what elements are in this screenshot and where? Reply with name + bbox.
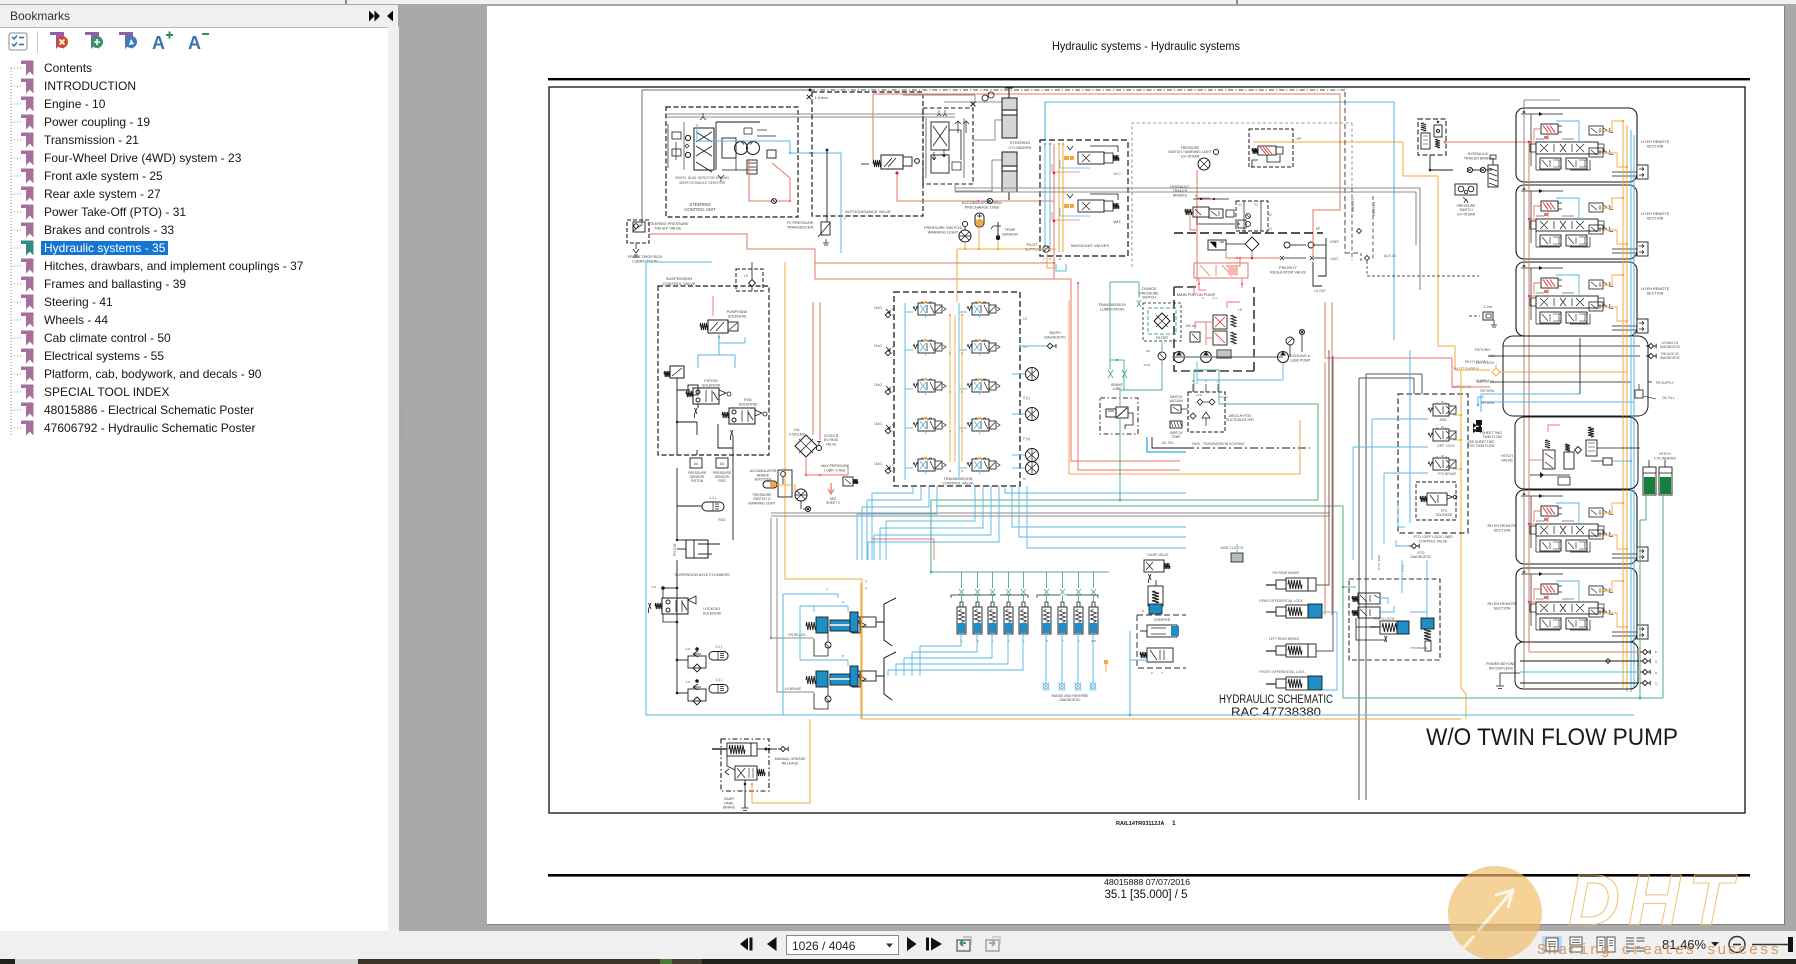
wire orange brake P xyxy=(862,583,867,719)
svg-text:2 bar: 2 bar xyxy=(1196,393,1202,397)
pto clutch actuator xyxy=(1356,618,1409,642)
wire trunk cyan right col xyxy=(1631,130,1634,692)
label RH EH remote 4 xyxy=(1487,524,1517,533)
gray bus double xyxy=(771,513,1330,516)
svg-text:RETURN: RETURN xyxy=(1475,348,1490,352)
svg-text:ACCUMULATOR 750cc: ACCUMULATOR 750cc xyxy=(962,201,1002,205)
svg-text:ROD: ROD xyxy=(744,398,752,402)
tcv valve right row 3 xyxy=(967,378,1000,395)
wire red cooler xyxy=(805,302,848,476)
max pressure lubr label xyxy=(821,464,849,472)
midmount trunk lines xyxy=(1044,143,1121,252)
wire red supply p1 xyxy=(1325,302,1490,615)
tcv port labels xyxy=(1023,317,1030,481)
svg-text:RH BRAKE: RH BRAKE xyxy=(788,633,806,637)
svg-text:LSAT: LSAT xyxy=(1330,257,1338,261)
tcv valve right row 4 xyxy=(967,417,1000,434)
svg-text:SECTION: SECTION xyxy=(1647,145,1664,149)
svg-text:DIAGNOSTIC: DIAGNOSTIC xyxy=(1410,555,1432,559)
decrease text size icon xyxy=(188,33,209,53)
svg-text:DHT: DHT xyxy=(1568,861,1740,941)
svg-text:BRAKE: BRAKE xyxy=(723,806,736,810)
svg-text:P: P xyxy=(865,580,868,584)
tcv valve right row 2 xyxy=(967,339,1000,356)
cyan staircase below tcv xyxy=(857,486,999,560)
svg-text:T: T xyxy=(844,217,847,221)
main pump symbols xyxy=(1172,350,1283,363)
suspension axle cylinder xyxy=(673,539,730,577)
tcv valve left row 2 xyxy=(913,339,946,356)
remote section block 2 LH xyxy=(1516,185,1648,259)
svg-text:SOLENOID: SOLENOID xyxy=(703,611,722,615)
wire gray brake feeds xyxy=(770,518,814,692)
svg-text:1.4 mm: 1.4 mm xyxy=(814,95,828,100)
next view button (disabled) xyxy=(986,937,1000,951)
sahr spring actuator xyxy=(712,743,769,756)
page dropdown arrow xyxy=(886,944,893,948)
trailer brake spring xyxy=(1488,155,1498,187)
svg-text:TRAILER BRAKE: TRAILER BRAKE xyxy=(1464,156,1493,160)
watermark DHT outline text xyxy=(1568,861,1740,941)
svg-text:A: A xyxy=(892,463,894,467)
wire hitch green xyxy=(1620,448,1663,698)
svg-text:48015888 07/07/2016: 48015888 07/07/2016 xyxy=(1104,878,1191,887)
svg-text:DIAGNOSTIC: DIAGNOSTIC xyxy=(1660,356,1681,360)
shift cylinder M xyxy=(1042,572,1051,643)
check valve red line xyxy=(977,198,993,203)
svg-text:a: a xyxy=(1655,671,1657,675)
label LH EH remote 2 xyxy=(1641,212,1670,221)
hitch cylinder right xyxy=(1659,460,1672,495)
svg-text:DIAG: DIAG xyxy=(874,344,882,348)
svg-text:LS: LS xyxy=(744,274,748,278)
pressure switch 10 bar xyxy=(1455,184,1477,216)
creeper box xyxy=(1104,615,1186,675)
svg-text:SENSOR: SENSOR xyxy=(1002,233,1018,237)
trailer brake valve box xyxy=(1418,119,1446,155)
svg-text:B: B xyxy=(1195,194,1197,198)
svg-text:T: T xyxy=(826,588,828,592)
svg-text:PUMP/TANK: PUMP/TANK xyxy=(727,310,748,314)
svg-text:PISTON: PISTON xyxy=(704,379,718,383)
park brake valve box xyxy=(1100,398,1138,434)
svg-text:LS: LS xyxy=(1238,308,1242,312)
svg-text:S: S xyxy=(1655,660,1657,664)
wire cyan cylinder drops right xyxy=(1046,634,1093,683)
wire blue pump suction xyxy=(1197,361,1283,384)
wire red right of tcv xyxy=(1071,279,1180,470)
wire orange pto trunk xyxy=(1453,370,1462,507)
svg-text:RELEASE: RELEASE xyxy=(782,761,799,765)
svg-text:Y2: Y2 xyxy=(1268,227,1272,231)
wire trunk orange right col xyxy=(1623,120,1627,692)
range reverse diagnostic drains xyxy=(1043,683,1097,703)
cyan staircase to left xyxy=(860,646,905,664)
midmount valve section 2 xyxy=(1052,146,1121,176)
svg-text:SECTION: SECTION xyxy=(1647,292,1664,296)
steering cylinder top xyxy=(1002,88,1017,138)
svg-text:N: N xyxy=(1142,609,1144,613)
tcv valve right row 5 xyxy=(967,457,1000,474)
svg-text:TRANSMISSION: TRANSMISSION xyxy=(944,477,973,481)
charge pressure switch xyxy=(1110,282,1159,307)
see sheet 2 arrow xyxy=(826,483,840,505)
continuous layout button xyxy=(1570,937,1582,952)
wire orange pilot supply xyxy=(1438,346,1490,370)
svg-text:RH REAR BRAKE: RH REAR BRAKE xyxy=(1273,571,1301,575)
lockout solenoid valve xyxy=(649,560,722,692)
svg-text:SUCTION FILTER: SUCTION FILTER xyxy=(1226,418,1254,422)
svg-text:2-8: 2-8 xyxy=(686,647,691,651)
single page layout button (active) xyxy=(1542,936,1562,953)
svg-text:EP: EP xyxy=(1316,227,1321,231)
power beyond ports xyxy=(1520,649,1658,686)
svg-text:PISTON: PISTON xyxy=(691,479,704,483)
tcv valve left row 4 xyxy=(913,417,946,434)
rh rear brake xyxy=(1266,571,1316,591)
wire LS dash-dot top xyxy=(809,89,1346,92)
wire dark gray buses right xyxy=(1359,374,1422,800)
svg-text:B: B xyxy=(892,423,894,427)
svg-text:LUBE: LUBE xyxy=(1113,387,1123,391)
switch vacuum xyxy=(1169,395,1188,413)
wire trailer brake black xyxy=(1429,155,1492,173)
accumulator brake booster xyxy=(750,469,792,497)
svg-text:REGULATOR VALVE: REGULATOR VALVE xyxy=(1270,271,1306,275)
pink line bottom left xyxy=(872,539,934,560)
svg-text:35.1 [35.000] / 5: 35.1 [35.000] / 5 xyxy=(1104,889,1187,901)
svg-text:B: B xyxy=(842,600,844,604)
svg-text:OIL FILL: OIL FILL xyxy=(1162,441,1175,445)
pressure switch warning light left xyxy=(1168,146,1218,170)
wire steering red return xyxy=(749,160,791,202)
svg-text:DIAGNOSTIC: DIAGNOSTIC xyxy=(1044,335,1066,339)
svg-text:PILOT: PILOT xyxy=(1027,243,1039,247)
drain power beyond xyxy=(1496,673,1520,689)
add bookmark icon xyxy=(85,32,103,49)
svg-text:RETURN: RETURN xyxy=(1480,401,1494,405)
dashed line vertical right xyxy=(1345,92,1361,253)
accumulator 2.0L with check xyxy=(676,645,728,672)
left rear brake xyxy=(1266,637,1316,657)
svg-text:RH EH REMOTE: RH EH REMOTE xyxy=(1487,602,1517,606)
svg-text:0-8: 0-8 xyxy=(652,585,657,589)
two page continuous button xyxy=(1626,938,1645,951)
svg-text:SHEET 2: SHEET 2 xyxy=(826,501,840,505)
svg-text:DIAG: DIAG xyxy=(874,383,882,387)
watermark logo circle xyxy=(1448,866,1542,960)
cooling lube pump xyxy=(1278,329,1311,362)
svg-text:L1 L: L1 L xyxy=(1212,296,1218,300)
svg-text:CONTROL VALVE: CONTROL VALVE xyxy=(1419,539,1448,543)
zoom dropdown arrow xyxy=(1711,942,1719,947)
svg-text:B: B xyxy=(842,654,844,658)
label LH EH remote 3 xyxy=(1641,287,1670,296)
steering control unit gerotor xyxy=(667,113,955,185)
wire red remote trunk xyxy=(1528,142,1530,652)
lubr valve xyxy=(843,477,858,486)
pressure switch warning light xyxy=(924,221,971,242)
svg-text:CONTROL UNIT: CONTROL UNIT xyxy=(684,207,716,212)
hitch cylinder left xyxy=(1643,460,1656,495)
rh brake master cylinder xyxy=(788,617,866,637)
wire steering supply gray xyxy=(642,90,810,226)
tcv valve left row 1 xyxy=(913,301,946,318)
svg-text:P: P xyxy=(1151,671,1153,675)
range relief valve xyxy=(1142,580,1163,614)
shift cylinder A xyxy=(957,572,966,643)
temp sensor xyxy=(991,222,1018,240)
svg-text:10+-05 BAR: 10+-05 BAR xyxy=(1181,154,1200,158)
filter bypass xyxy=(1144,342,1166,369)
svg-text:DIAG: DIAG xyxy=(874,462,882,466)
wire cyan pto feeds xyxy=(1353,350,1428,560)
shift bracket lines xyxy=(951,595,1098,598)
svg-text:COOLING &: COOLING & xyxy=(1290,354,1311,358)
increase text size icon xyxy=(152,32,173,54)
wire brake actuator feeds xyxy=(1316,350,1337,690)
svg-text:MANUAL GREASE: MANUAL GREASE xyxy=(775,757,806,761)
svg-text:SOLENOID: SOLENOID xyxy=(702,383,721,387)
svg-text:LUBRICATION: LUBRICATION xyxy=(1100,307,1124,311)
wire red autoguidance xyxy=(873,94,1340,279)
fx pressure transducer xyxy=(787,221,830,245)
switch temp xyxy=(1170,421,1183,439)
label hydraulic trailer brake xyxy=(1464,152,1493,160)
ls check small box xyxy=(736,262,763,291)
svg-text:P: P xyxy=(1202,296,1204,300)
priority regulator valve area xyxy=(1174,201,1323,275)
see sheet twin marker xyxy=(1468,423,1496,448)
svg-text:CREEPER: CREEPER xyxy=(1154,618,1171,622)
svg-text:DIAG: DIAG xyxy=(874,422,882,426)
wire gray LS right xyxy=(955,188,1420,290)
transmission control valve box xyxy=(894,292,1020,486)
svg-text:A: A xyxy=(188,33,201,53)
EP pilot valve box xyxy=(1249,129,1293,167)
autoguidance solenoid valve xyxy=(861,155,919,175)
svg-text:CONTROL VALVE: CONTROL VALVE xyxy=(663,281,696,286)
50kph diagnostic xyxy=(1019,331,1067,349)
wire red mid bus xyxy=(815,263,1052,279)
options checklist icon xyxy=(9,33,27,50)
piston solenoid valve xyxy=(686,379,731,404)
svg-text:RH EH REMOTE: RH EH REMOTE xyxy=(1487,524,1517,528)
4wd clutch xyxy=(1221,544,1244,562)
svg-text:DIAGNOSTIC: DIAGNOSTIC xyxy=(1059,698,1081,702)
svg-text:4WD: 4WD xyxy=(1439,418,1447,422)
wire green suction xyxy=(1194,370,1219,404)
svg-text:EXT FLUSH: EXT FLUSH xyxy=(1476,361,1495,365)
svg-text:CYLINDERS: CYLINDERS xyxy=(1009,145,1032,150)
wire cyan pto drop xyxy=(1402,560,1427,612)
cut mark 1.4 mm xyxy=(807,95,829,100)
brake pedal lh xyxy=(850,652,896,700)
svg-text:MAIN LS: MAIN LS xyxy=(1351,198,1355,212)
check valve steering red xyxy=(772,199,777,204)
diag fittings left xyxy=(874,306,895,474)
wire cyan big left rect xyxy=(646,262,1520,715)
pto brake solenoid valve xyxy=(1428,456,1456,476)
svg-text:40KPH IS SINGLE GEROTOR: 40KPH IS SINGLE GEROTOR xyxy=(679,181,726,185)
shift cylinder P xyxy=(1058,572,1067,643)
svg-text:C-bus: C-bus xyxy=(1484,305,1493,309)
wire orange mid left xyxy=(785,262,868,719)
wire cyan right trunk xyxy=(1393,176,1395,340)
svg-text:PRESSURE SWITCH/: PRESSURE SWITCH/ xyxy=(924,226,963,230)
svg-text:DIFF. LOCK: DIFF. LOCK xyxy=(1437,444,1455,448)
svg-text:SOLENOID: SOLENOID xyxy=(1436,513,1453,517)
trailer brake valve cluster xyxy=(1185,194,1246,228)
svg-text:FRONT DROP-BOX: FRONT DROP-BOX xyxy=(628,255,663,259)
closed port X piston xyxy=(695,408,698,418)
valve check top mid xyxy=(971,92,994,106)
svg-text:DA: DA xyxy=(694,462,699,466)
steering cylinder bottom xyxy=(1002,152,1017,200)
shift cylinder B xyxy=(973,572,982,643)
pto clutch valves xyxy=(1352,593,1394,618)
sahr release valve xyxy=(725,756,765,791)
svg-text:TEMP: TEMP xyxy=(1172,435,1181,439)
svg-text:BRAKES: BRAKES xyxy=(1173,193,1187,197)
hitch valve block xyxy=(1501,417,1638,489)
svg-text:TRANSMISSION: TRANSMISSION xyxy=(1098,303,1126,307)
delete bookmark icon xyxy=(50,32,68,49)
brake pedal rh xyxy=(850,598,896,646)
label steering cylinders xyxy=(1009,140,1032,150)
svg-text:0.5 bar: 0.5 bar xyxy=(1219,395,1228,399)
two page layout button xyxy=(1597,937,1615,952)
pressure sensor piston xyxy=(688,458,707,483)
svg-text:HYDRAULIC: HYDRAULIC xyxy=(1468,152,1489,156)
svg-text:SECTION: SECTION xyxy=(1494,607,1511,611)
argo-hytos suction filter box xyxy=(1188,392,1254,432)
svg-text:T: T xyxy=(1161,671,1163,675)
wire green pto left xyxy=(1342,586,1356,589)
previous page button xyxy=(767,937,777,951)
wire cyan brake loop xyxy=(783,588,848,715)
aux ls dashed xyxy=(1357,229,1480,277)
svg-text:PTO BRAKE: PTO BRAKE xyxy=(1438,472,1456,476)
svg-text:A: A xyxy=(152,33,165,53)
filter box xyxy=(1143,303,1181,341)
svg-text:COOLER: COOLER xyxy=(789,433,805,437)
wire pump LS red xyxy=(1227,302,1325,358)
svg-text:b: b xyxy=(1655,650,1657,654)
autoguidance valve box xyxy=(812,92,923,216)
lh brake check xyxy=(814,687,831,709)
svg-text:ROD: ROD xyxy=(718,518,726,522)
rh brake check xyxy=(814,633,831,656)
wire green filter trunk xyxy=(1110,282,1162,390)
label transmission lubrication xyxy=(1098,303,1126,311)
wire cyan trunk to midmount xyxy=(1045,102,1394,176)
svg-text:OIL FILL: OIL FILL xyxy=(1662,396,1675,400)
hydraulic trailer brakes label left xyxy=(1170,185,1190,197)
wire sensors black xyxy=(676,390,733,455)
labels pto vertical xyxy=(1377,555,1405,572)
brake lube symbols xyxy=(1108,359,1127,391)
svg-text:RAIL14TR03112JA: RAIL14TR03112JA xyxy=(1116,821,1164,827)
label pbus ls xyxy=(1372,196,1376,260)
label LH EH remote 1 xyxy=(1641,140,1670,149)
zoom out button xyxy=(1729,937,1745,953)
clutch symbols xyxy=(1012,368,1039,475)
svg-text:DA: DA xyxy=(720,462,725,466)
svg-text:P.T.O. BRK: P.T.O. BRK xyxy=(1377,555,1381,570)
svg-text:SOLENOID: SOLENOID xyxy=(728,314,747,318)
remote section block 5 RH xyxy=(1516,568,1648,642)
svg-text:TRANSDUCER: TRANSDUCER xyxy=(787,226,814,230)
svg-text:RELIEF VALVE: RELIEF VALVE xyxy=(655,227,681,231)
svg-text:EP: EP xyxy=(1297,137,1302,141)
tcv valve right row 1 xyxy=(967,301,1000,318)
suspension control valve box xyxy=(658,276,769,455)
svg-text:VALVE: VALVE xyxy=(1501,459,1513,463)
wire orange bottom bus xyxy=(861,583,1461,719)
svg-text:PTO BRAKE: PTO BRAKE xyxy=(1410,646,1427,650)
shift cylinder E xyxy=(1019,572,1028,643)
blue elbow right xyxy=(1477,397,1484,406)
steering control unit box xyxy=(666,107,798,217)
label rod wire xyxy=(677,455,733,540)
svg-text:HITCH: HITCH xyxy=(1659,452,1671,456)
pto solenoid inner box xyxy=(1416,482,1457,520)
svg-text:FILTER: FILTER xyxy=(1156,336,1168,340)
wire steering cyan pilot xyxy=(697,124,841,154)
remote section block 1 LH xyxy=(1516,108,1648,182)
next page button xyxy=(907,937,917,951)
shift cylinder D xyxy=(1004,572,1013,643)
wire red priority xyxy=(1226,234,1313,266)
svg-text:O: O xyxy=(1655,682,1658,686)
svg-text:SOLENOID: SOLENOID xyxy=(739,402,758,406)
manual grease release xyxy=(768,746,806,765)
wire green park brake xyxy=(1119,390,1122,501)
wire suspension cyan loop xyxy=(698,333,745,368)
wire cyan long bottom xyxy=(646,714,1634,716)
svg-text:E: E xyxy=(892,307,894,311)
svg-text:LH EH REMOTE: LH EH REMOTE xyxy=(1641,287,1670,291)
pump compensator valves xyxy=(1206,308,1242,345)
wire red trailer brake xyxy=(1190,212,1198,281)
midmount outer dashed region xyxy=(1132,123,1352,267)
svg-text:LS OUT: LS OUT xyxy=(1314,289,1326,293)
svg-text:POWER BEYOND: POWER BEYOND xyxy=(1486,662,1516,666)
closed port X rod xyxy=(731,430,734,440)
svg-text:P: P xyxy=(865,587,867,591)
accumulator 750cc xyxy=(962,201,1002,227)
remote section block 4 RH xyxy=(1516,490,1648,564)
wire cyan steering T xyxy=(841,153,847,253)
svg-text:AUX LS: AUX LS xyxy=(1384,254,1397,258)
tcv cyan risers xyxy=(905,303,967,480)
pump relief 345 bar xyxy=(1186,322,1206,342)
svg-text:TANK - TRANSMISSION HOUSING: TANK - TRANSMISSION HOUSING xyxy=(1192,442,1245,446)
c-bus connector xyxy=(1469,305,1497,327)
svg-text:P: P xyxy=(1049,257,1051,261)
svg-text:VALVE: VALVE xyxy=(826,442,837,446)
svg-text:B: B xyxy=(1059,257,1061,261)
svg-text:REAR DIFFERENTIAL LOCK: REAR DIFFERENTIAL LOCK xyxy=(1259,599,1303,603)
svg-text:USEF: USEF xyxy=(1330,240,1339,244)
svg-text:19: 19 xyxy=(1023,317,1027,321)
svg-text:SUPPLY P2: SUPPLY P2 xyxy=(1476,380,1494,384)
wire orange sahr xyxy=(742,719,811,813)
dump valve xyxy=(1144,553,1170,583)
tank transmission housing line xyxy=(1170,442,1310,448)
svg-text:OIL: OIL xyxy=(794,428,800,432)
